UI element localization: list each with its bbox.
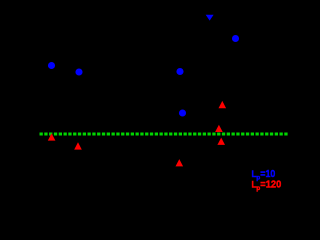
data point B3 (blue circle)	[176, 68, 183, 75]
data point B1 (blue circle)	[48, 62, 55, 69]
data point B6 (blue triangle-down, upper limit)	[206, 15, 214, 21]
data point R3 (red triangle-up)	[219, 101, 227, 108]
data point B5 (blue circle)	[179, 109, 186, 116]
svg-text:=10: =10	[260, 169, 275, 180]
legend label Lp=10 (blue)	[252, 169, 276, 182]
data point B2 (blue circle)	[75, 68, 82, 75]
data point R4 (red triangle-up)	[215, 125, 223, 132]
data point B4 (blue circle)	[232, 35, 239, 42]
data point R6 (red triangle-up)	[176, 159, 184, 166]
legend label Lp=120 (red)	[252, 180, 282, 193]
data point R5 (red triangle-up)	[217, 138, 225, 145]
svg-text:=120: =120	[260, 180, 281, 191]
threshold line (green dashed)	[40, 133, 289, 136]
data point R2 (red triangle-up)	[74, 142, 82, 149]
data point R1 (red triangle-up)	[48, 133, 56, 140]
